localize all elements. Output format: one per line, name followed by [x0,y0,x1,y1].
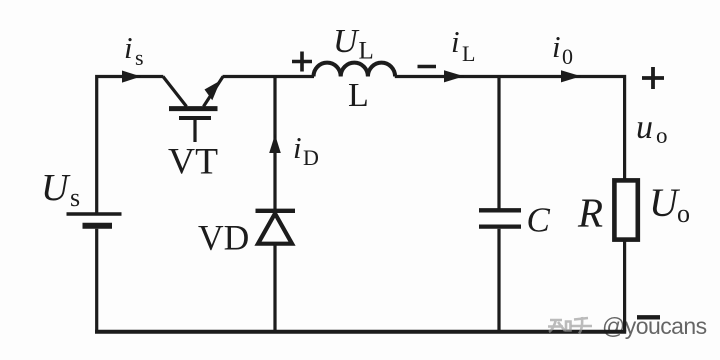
inductor L [314,63,396,77]
svg-text:0: 0 [562,44,573,69]
label - output bottom [637,315,660,319]
svg-text:D: D [303,145,319,170]
wire inductor to output corner down to resistor [395,77,625,181]
wire resistor bottom lead [623,240,626,332]
diode VD [256,211,296,244]
svg-text:i: i [451,24,460,59]
resistor R [614,180,637,239]
label Us [41,167,80,212]
wire capacitor branch bottom [497,229,500,332]
label + output top [642,67,664,89]
label + left of inductor [292,52,312,72]
label C [527,201,551,240]
label iL [451,24,475,66]
current arrow iD [269,135,281,154]
battery source Us [67,214,122,226]
label Uo [649,180,690,228]
wire left column below battery [95,229,98,332]
svg-text:U: U [41,167,71,209]
svg-text:R: R [577,190,603,236]
label VT [168,142,218,183]
label L [348,77,369,114]
svg-text:s: s [70,183,80,212]
svg-text:C: C [527,201,551,240]
svg-text:o: o [656,123,668,148]
svg-text:L: L [462,41,475,66]
label VD [198,218,249,258]
svg-text:u: u [636,109,653,146]
capacitor C [479,210,521,226]
label uo [636,109,668,148]
svg-text:L: L [359,38,374,65]
svg-text:i: i [293,130,302,165]
wire capacitor branch top [497,77,500,209]
wire diode branch top [273,77,276,210]
wire bottom [95,330,626,334]
svg-text:i: i [552,29,561,64]
svg-text:i: i [124,30,133,65]
label iD [293,130,319,170]
label is [124,30,144,70]
wire diode branch bottom [273,244,276,332]
svg-text:@youcans: @youcans [602,313,707,339]
svg-text:VD: VD [198,218,249,258]
current arrow iL [444,70,464,82]
transistor VT [163,77,223,143]
label R [577,190,603,236]
wire left column top and top-left horizontal [97,77,164,214]
label UL [333,23,374,65]
label i0 [552,29,573,69]
svg-text:U: U [333,23,360,60]
svg-text:L: L [348,77,369,114]
current arrow i0 [561,70,581,82]
wire VT to inductor [223,75,315,78]
watermark zhihu @youcans [548,313,707,339]
svg-text:VT: VT [168,142,218,183]
current arrow is [122,71,141,83]
svg-text:o: o [677,199,690,228]
label - right of inductor [418,65,437,68]
svg-text:s: s [135,45,144,70]
